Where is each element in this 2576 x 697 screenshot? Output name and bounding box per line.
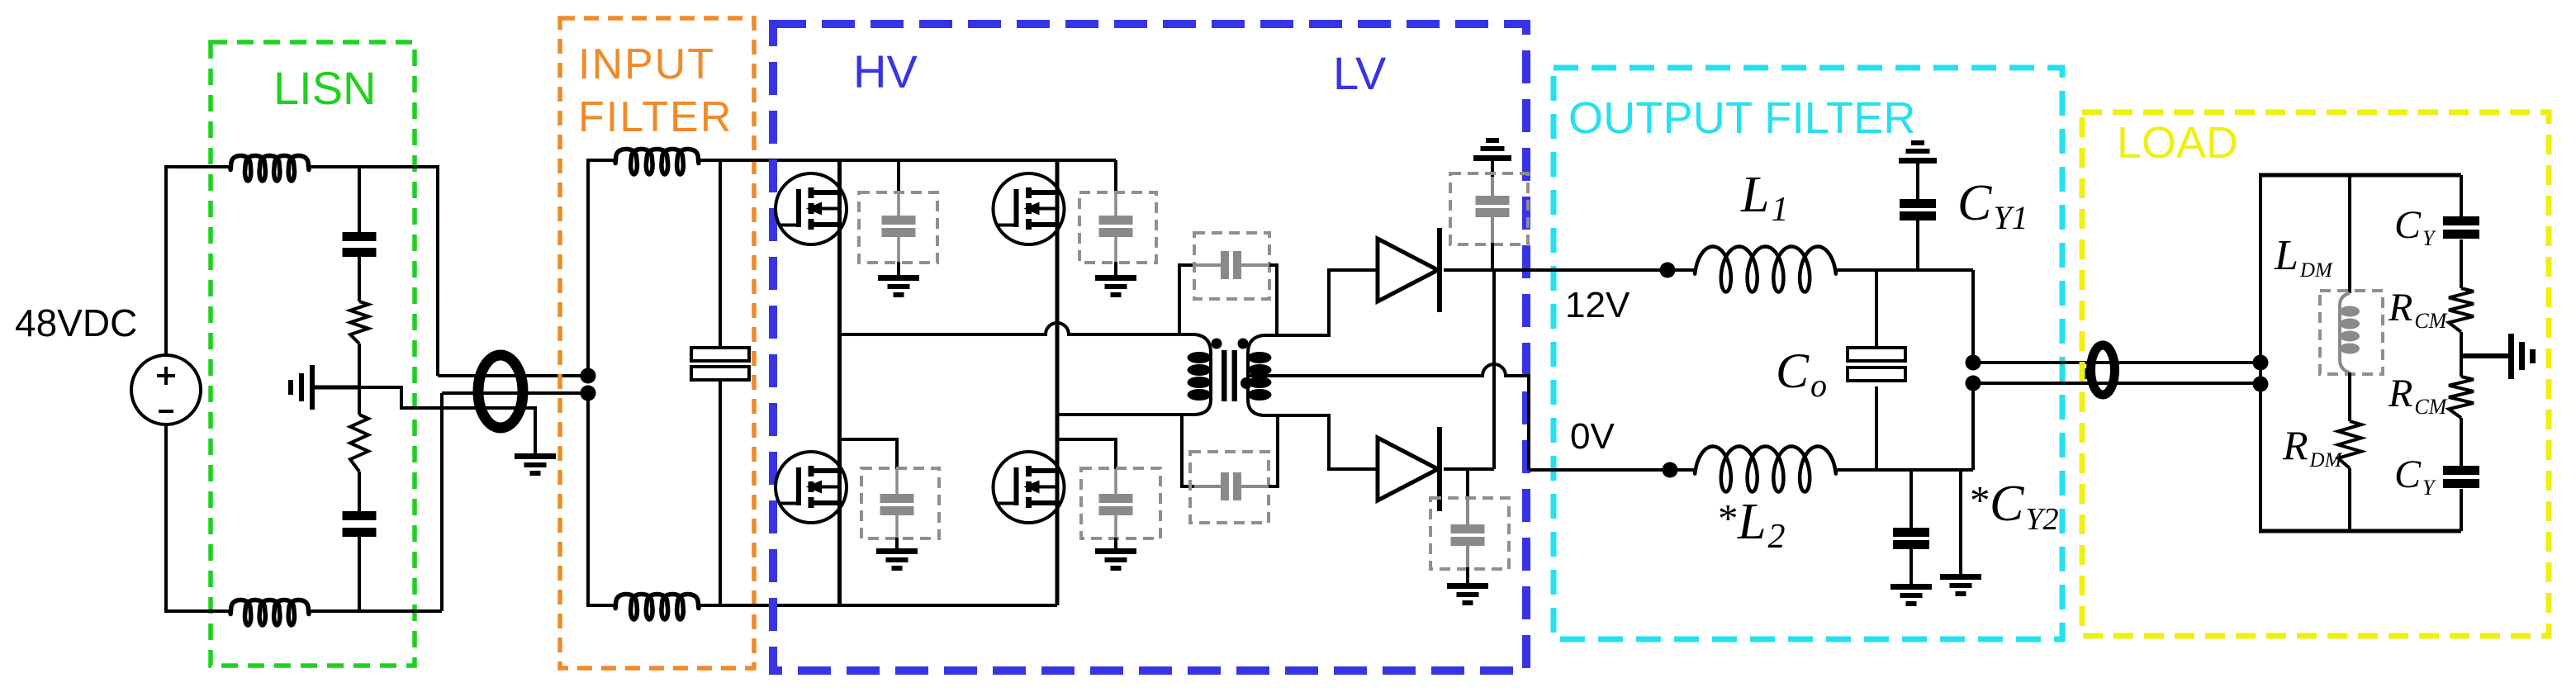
label 0V	[1570, 416, 1615, 457]
label CY top	[2394, 203, 2436, 250]
wire CY1 to 12V rail	[1916, 220, 1919, 270]
dashed region box: LISN (green)	[211, 42, 415, 666]
wire CY to RCM	[2460, 239, 2463, 288]
wire Co branch upper	[1875, 270, 1878, 348]
label LOAD	[2117, 118, 2238, 168]
label 12V	[1565, 285, 1630, 325]
dashed parasitic box Q1	[859, 192, 937, 263]
wire Q3 parasitic cap to ground	[895, 515, 899, 548]
ground Q4 parasitic	[1095, 548, 1136, 571]
wire 12V rail	[1444, 268, 1695, 272]
ground CY2	[1890, 584, 1932, 606]
svg-text:12V: 12V	[1565, 285, 1630, 325]
dashed region box: OUTPUT FILTER (cyan)	[1554, 68, 2062, 639]
label L1	[1740, 167, 1788, 229]
wire L1 to output bus	[1836, 268, 1973, 272]
resistor LISN upper	[350, 301, 368, 344]
wire input filter bottom rail left	[586, 604, 615, 607]
inductor L2	[1695, 447, 1836, 492]
wire output bus upper	[1971, 270, 1975, 363]
label CY bottom	[2394, 453, 2436, 500]
dashed parasitic box Q3	[861, 468, 939, 538]
wire D2 parasitic drop	[1466, 469, 1469, 499]
junction dot 12V	[1660, 263, 1676, 278]
resistor RCM upper	[2449, 288, 2474, 332]
inductor LDM (gray)	[2340, 293, 2360, 372]
transistor Q2 (HV bridge top-right MOSFET)	[994, 173, 1065, 244]
transistor Q4 (HV bridge bottom-right MOSFET)	[994, 452, 1065, 523]
inductor input filter top	[615, 149, 699, 175]
wire mid junction to lower resistor	[358, 387, 361, 415]
wire L2 to output bus	[1836, 468, 1973, 472]
wire output pair upper	[1973, 361, 2261, 364]
wire load bottom side	[2259, 529, 2461, 533]
wire LISN mid branch upper	[358, 167, 361, 232]
wire interwinding cap to secondary-bottom	[1269, 415, 1278, 486]
junction dot load upper	[2253, 355, 2269, 371]
ground CY1 (inverted)	[1899, 140, 1937, 164]
wire CY2 branch	[1909, 470, 1913, 528]
junction dot bus upper	[1966, 355, 1981, 371]
svg-text:0V: 0V	[1570, 416, 1615, 457]
wire HV+ rail (input filter to bridge)	[699, 159, 1116, 162]
wire secondary top to rectifier	[1264, 270, 1378, 335]
capacitor X (input filter)	[691, 348, 749, 380]
label *L2	[1718, 494, 1785, 556]
junction dot 0V	[1663, 462, 1678, 478]
wire LV parasitic bottom to ground	[1466, 567, 1469, 583]
dashed LV parasitic box top	[1450, 173, 1528, 244]
inductor input filter bottom	[615, 595, 699, 620]
transformer T1 core	[1222, 350, 1237, 401]
wire X-cap branch lower	[719, 380, 722, 605]
dashed region box: LOAD (yellow)	[2082, 112, 2549, 636]
resistor RCM lower	[2449, 377, 2474, 418]
ground Q2 parasitic	[1095, 275, 1136, 297]
wire lower resistor to lower cap	[358, 472, 361, 511]
wire D2 cathode to link	[1444, 467, 1494, 471]
svg-text:FILTER: FILTER	[578, 93, 733, 141]
wire LISN top rail to right corner	[309, 165, 438, 168]
dashed parasitic box Q2	[1079, 192, 1156, 263]
label INPUT	[578, 40, 715, 88]
wire input filter left rail lower	[586, 393, 590, 605]
junction dot load lower	[2253, 377, 2269, 392]
transistor Q1 (HV bridge top-left MOSFET)	[776, 173, 847, 244]
capacitor CY1	[1900, 199, 1936, 220]
label LDM	[2274, 232, 2333, 282]
capacitor CY load top	[2443, 216, 2479, 239]
transformer T1 secondary winding	[1248, 335, 1272, 415]
wire LISN bottom rail to right	[309, 609, 442, 613]
wire interwinding cap to secondary-top	[1269, 265, 1277, 334]
wire Q4 parasitic tap	[1057, 439, 1116, 494]
wire Co branch lower	[1875, 386, 1878, 470]
wire lower cap to bottom rail	[358, 537, 361, 611]
capacitor CY load bottom	[2443, 466, 2479, 488]
wire rectifier link vertical	[1492, 270, 1496, 469]
label LV	[1333, 47, 1387, 99]
wire primary-bottom to interwinding cap	[1182, 415, 1194, 486]
ground Q3 parasitic	[876, 548, 918, 571]
wire Q1 parasitic cap to ground	[897, 237, 900, 275]
label OUTPUT FILTER	[1568, 93, 1916, 143]
transformer T1 primary winding	[1188, 334, 1212, 415]
wire CY2 to ground	[1909, 549, 1913, 584]
ground LV top (inverted)	[1473, 138, 1511, 161]
wire right switch node rail	[1057, 413, 1195, 416]
wire 0V direct ground branch	[1959, 470, 1962, 574]
wire source top to LISN top rail	[166, 167, 230, 355]
wire LV parasitic top to 12V rail	[1491, 243, 1494, 270]
transformer center-tap junction dot	[1241, 377, 1252, 389]
wire LDM to RDM	[2348, 372, 2351, 421]
output cable tie	[2080, 368, 2090, 379]
wire Q2 parasitic cap to ground	[1114, 237, 1117, 275]
wire left bridge leg	[837, 160, 842, 605]
inductor LISN top	[230, 156, 309, 182]
wire LDM branch top	[2348, 175, 2351, 293]
dashed region box: converter (blue)	[773, 24, 1526, 671]
dashed LV parasitic box bottom	[1430, 498, 1509, 569]
wire secondary center tap (hops over rectifier link)	[1248, 364, 1529, 470]
svg-text:48VDC: 48VDC	[15, 301, 137, 344]
wire load top side	[2259, 173, 2461, 178]
label CY1	[1957, 175, 2028, 236]
resistor LISN lower	[350, 415, 368, 472]
capacitor Q4 parasitic (gray)	[1099, 494, 1133, 515]
common-mode choke on input cable (ferrite ring)	[478, 355, 523, 428]
label RDM	[2282, 422, 2343, 472]
transformer polarity dot primary	[1212, 339, 1222, 349]
diode D1 (top rectifier)	[1378, 228, 1440, 312]
svg-text:LISN: LISN	[273, 62, 377, 114]
transformer polarity dot secondary	[1238, 339, 1249, 349]
wire LISN right rise to line B	[440, 393, 444, 611]
wire RDM to bottom	[2348, 468, 2351, 531]
wire source bottom to LISN bottom rail	[166, 424, 230, 611]
wire Q3 parasitic tap	[840, 439, 898, 494]
wire LV top ground stem	[1491, 161, 1494, 178]
wire input filter left rail upper	[586, 160, 590, 376]
label Co	[1776, 344, 1827, 404]
capacitor LV parasitic top (gray)	[1476, 177, 1510, 244]
capacitor LISN lower	[343, 511, 377, 537]
svg-text:LOAD: LOAD	[2117, 118, 2238, 168]
ground LISN (left-pointing) with lead	[288, 365, 359, 410]
wire RCM to CY	[2460, 418, 2463, 466]
label FILTER	[578, 93, 733, 141]
junction dot bus lower	[1966, 376, 1981, 391]
dashed parasitic box Q4	[1081, 468, 1160, 538]
ground load (right-pointing)	[2508, 334, 2536, 379]
wire load left side	[2259, 175, 2262, 531]
transistor Q3 (HV bridge bottom-left MOSFET)	[776, 452, 847, 523]
common-mode choke on output cable (ferrite ring)	[2091, 345, 2115, 395]
wire X-cap branch upper	[719, 160, 722, 348]
capacitor interwinding bottom (gray)	[1194, 472, 1269, 500]
dashed interwinding box top	[1194, 233, 1269, 299]
wire output bus lower	[1971, 383, 1975, 470]
svg-text:HV: HV	[853, 45, 918, 97]
svg-text:OUTPUT FILTER: OUTPUT FILTER	[1568, 93, 1916, 143]
ground LV bottom	[1447, 583, 1488, 605]
wire secondary bottom to rectifier	[1264, 415, 1378, 469]
inductor LISN bottom	[230, 600, 309, 626]
wire CY1 stem	[1916, 164, 1919, 199]
junction node A (input filter +)	[581, 368, 596, 384]
wire line A: LISN to input filter (through CM choke)	[438, 374, 588, 377]
wire right bridge leg	[1056, 160, 1060, 605]
wire LISN right drop to line A	[436, 165, 439, 376]
wire 0V rail	[1529, 468, 1695, 472]
svg-text:INPUT: INPUT	[578, 40, 715, 88]
ground Q1 parasitic	[878, 275, 919, 297]
capacitor LISN upper	[343, 232, 377, 257]
wire HV- rail (input filter to bridge)	[699, 604, 1057, 607]
capacitor CY2	[1893, 528, 1929, 549]
wire load ground stub	[2461, 353, 2509, 358]
label HV	[853, 45, 918, 97]
voltage source V1 48VDC (circle)	[131, 355, 201, 424]
ground 0V direct	[1940, 574, 1981, 596]
inductor L1	[1695, 247, 1836, 292]
capacitor Co	[1848, 348, 1905, 381]
dashed interwinding box bottom	[1190, 452, 1269, 523]
capacitor Q3 parasitic (gray)	[880, 494, 914, 515]
label RCM lower	[2388, 372, 2448, 419]
wire CY to bottom	[2460, 489, 2463, 531]
diode D2 (bottom rectifier)	[1378, 427, 1440, 511]
wire primary-top to interwinding cap	[1179, 265, 1194, 334]
wire cap to resistor	[358, 257, 361, 301]
wire Q1 parasitic cap drop	[897, 160, 900, 216]
label RCM upper	[2388, 286, 2448, 333]
label LISN	[273, 62, 377, 114]
dashed region box: INPUT FILTER (orange)	[560, 18, 754, 668]
svg-text:LV: LV	[1333, 47, 1387, 99]
ground under input choke	[515, 453, 556, 476]
label 48VDC	[15, 301, 137, 344]
wire Q2 parasitic cap drop	[1114, 160, 1117, 216]
wire LISN ground jog to earth under choke	[359, 387, 535, 453]
wire input filter top rail left	[586, 159, 615, 162]
capacitor interwinding top (gray)	[1194, 251, 1277, 279]
wire load right upper	[2460, 175, 2463, 216]
wire Q4 parasitic cap to ground	[1114, 515, 1117, 548]
capacitor LV parasitic bottom (gray)	[1451, 498, 1485, 569]
dashed box LDM (gray)	[2320, 291, 2383, 374]
capacitor Q1 parasitic (gray)	[882, 216, 916, 237]
wire RCM junction	[2460, 332, 2463, 377]
wire left switch node rail (hops over right leg)	[840, 323, 1196, 334]
wire output pair lower	[1973, 382, 2261, 385]
wire line B: LISN to input filter (through CM choke)	[442, 391, 588, 395]
wire resistor to mid junction	[358, 344, 361, 387]
junction node B (input filter -)	[581, 386, 596, 401]
capacitor Q2 parasitic (gray)	[1099, 216, 1133, 237]
label *CY2	[1970, 476, 2059, 537]
resistor RDM	[2338, 421, 2361, 468]
